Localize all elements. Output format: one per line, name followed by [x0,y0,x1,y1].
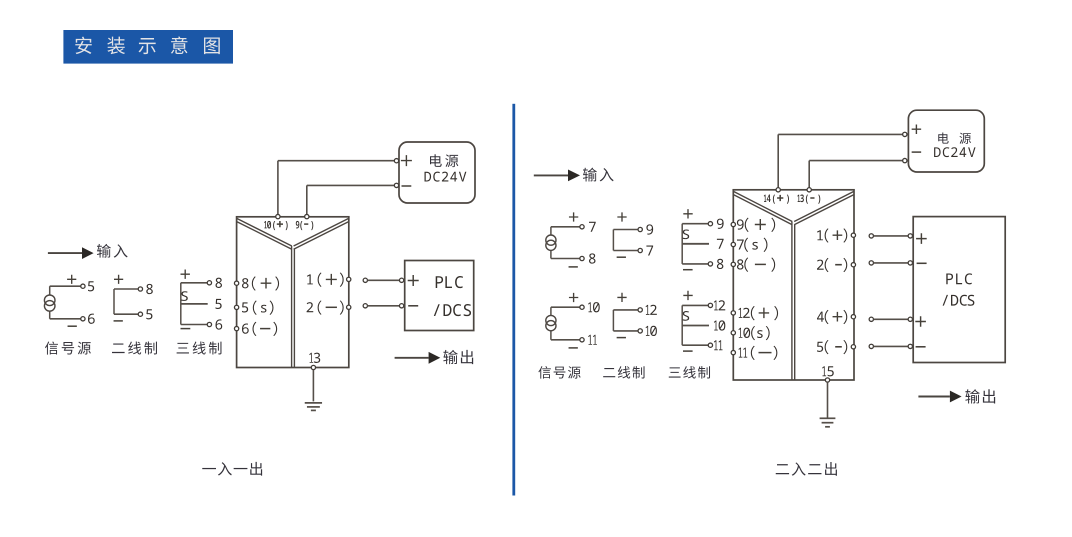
three-wire transmitter symbol (left) [180,283,182,325]
module input terminal 12(+) [731,311,735,315]
PLC polarity + row3 [915,316,926,327]
three-wire symbol ch1 (right) [681,224,683,264]
pin S [683,229,690,239]
terminal 9 [638,227,642,231]
current source ch2 (right) [550,307,552,315]
PLC/DCS box (left) [405,261,474,331]
PLC polarity + row1 [916,233,927,244]
output arrow 输出 (right) [918,396,950,398]
module V-groove left outer [734,192,793,222]
power supply box 电源 DC24V (left) [399,142,475,203]
PLC polarity - [408,305,418,307]
PLC polarity - row4 [916,346,926,348]
label /DCS [434,304,440,316]
terminal 9(-) [305,214,309,218]
wire src2 - [551,339,580,341]
polarity + [181,270,190,279]
wire 2w2 + [613,309,638,311]
power wire - vertical [306,185,308,216]
label /DCS [943,295,948,306]
caption 二入二出 [776,464,789,474]
current source (signal source, left) [49,286,51,295]
wire 3w1 + [682,223,708,225]
module input terminal 5(s) [234,305,238,309]
module V-groove right inner [794,195,853,225]
terminal 11 [708,343,712,347]
module input terminal 7(s) [731,242,735,246]
wire 3w + [181,282,208,284]
module input terminal 11(-) [731,350,735,354]
wire 3w2 + [682,304,708,306]
module output terminal 2(-) [347,305,351,309]
section divider [512,104,515,496]
terminal 13 (ground) [311,365,315,369]
wire 3w1 s [682,243,709,245]
wire 3w s [181,303,208,305]
label 三线制 [177,343,189,354]
polarity + [114,275,123,284]
terminal 7 [638,248,642,252]
terminal 9 [708,222,712,226]
wire source + [50,285,81,287]
module V-groove left outer [237,219,292,247]
label PLC [946,273,953,284]
PLC polarity + [408,275,419,286]
terminal 10 [580,305,584,309]
module input terminal 8(-) [731,262,735,266]
module V-groove left inner [734,195,793,225]
label 二线制 [112,344,125,354]
terminal 10 [638,329,642,333]
terminal 8 [708,262,712,266]
wire src1 + [551,226,580,228]
label 电源 [938,133,948,144]
output wire 2 [363,304,367,308]
module output terminal 5(-) [851,345,855,349]
pin S [683,311,690,321]
title block 安装示意图 [63,30,233,64]
pin label 15 [822,366,826,376]
current source ch1 (right) [550,227,552,235]
output arrow 输出 (left) [395,357,429,359]
label 信号源 (right) [538,366,550,379]
three-wire symbol ch2 (right) [681,305,683,345]
wire 2w + [114,288,138,290]
power terminal + [903,132,907,136]
power terminal - [903,158,907,162]
ground symbol (left) [312,370,314,402]
polarity - [181,328,191,330]
isolator module U2 outline (right) [733,190,854,380]
label 二线制 (right) [603,368,615,377]
wire source - [50,318,81,320]
terminal 12 [638,308,642,312]
terminal 6 [81,317,85,321]
terminal 8 [138,287,142,291]
terminal 12 [708,303,712,307]
wire 2w2 - [613,330,638,332]
terminal 8 [207,281,211,285]
module output terminal 4(+) [851,315,855,319]
terminal 11 [580,338,584,342]
module input terminal 6(-) [234,326,238,330]
power wire - vertical (right) [808,161,810,190]
module output terminal 1(+) [851,233,855,237]
wire src1 - [551,258,580,260]
pin label 14(+) [764,195,767,202]
module input terminal 8(+) [234,281,238,285]
label PLC [436,276,443,288]
wire 2w - [114,313,138,315]
polarity + [67,275,76,284]
output wire row1 [869,234,873,238]
pin S [181,291,188,301]
module input terminal 9(+) [731,222,735,226]
label 信号源 [45,341,58,354]
label 电源 [430,154,442,167]
power terminal + [394,159,398,163]
two-wire symbol ch2 (right) [612,310,614,331]
terminal 10(+) [276,214,280,218]
power wire + vertical [277,161,279,217]
polarity - [114,320,123,322]
module output terminal 1(+) [347,277,351,281]
output wire row4 [869,344,873,348]
terminal 14(+) [776,188,780,192]
wire 2w1 + [613,229,638,231]
terminal 6 [207,322,211,326]
module V-groove right inner [294,222,349,250]
module input terminal 10(s) [731,331,735,335]
module center channel left [791,222,793,381]
wire 3w2 s [682,325,709,327]
module V-groove right outer [294,219,349,247]
label 三线制 (right) [669,367,681,377]
input arrow 输入 (left) [48,252,82,254]
pin label 9(-) [296,221,300,229]
wire src2 + [551,306,580,308]
power supply box 电源 DC24V (right) [908,110,984,172]
pin label 10(+) [264,221,267,228]
output wire row3 [869,317,873,321]
input arrow 输入 (right) [534,174,568,176]
power wire + vertical (right) [777,134,779,189]
module center channel right [293,249,295,367]
two-wire symbol ch1 (right) [612,230,614,251]
terminal 5 [138,312,142,316]
caption 一入一出 [202,468,216,469]
output wire 1 [363,278,367,282]
output wire row2 [869,261,873,265]
label DC24V [425,172,432,182]
module output terminal 2(-) [851,263,855,267]
power wire - horizontal (right) [809,160,905,162]
wire 3w2 - [682,344,708,346]
PLC/DCS box (right) [913,217,1005,363]
pin label 13 [309,353,313,363]
wire 3w - [181,324,208,326]
PLC polarity - row2 [917,262,927,264]
module V-groove right outer [794,192,853,222]
terminal 5 [81,284,85,288]
wire 3w1 - [682,263,708,265]
label DC24V [934,147,941,157]
terminal 15 (ground) [825,378,829,382]
terminal 8 [580,256,584,260]
terminal 13(-) [807,188,811,192]
isolator module U1 outline (left) [237,217,349,368]
power terminal - [394,183,398,187]
pin label 13(-) [797,195,800,202]
polarity - [68,325,77,327]
wire 2w1 - [613,250,638,252]
two-wire transmitter symbol (left) [113,289,115,314]
power wire - horizontal [307,184,397,186]
ground symbol (right) [827,382,829,418]
module center channel right [794,225,796,380]
module center channel left [291,246,293,368]
terminal 7 [580,225,584,229]
module V-groove left inner [237,222,292,250]
power wire + horizontal [278,160,397,162]
power wire + horizontal (right) [778,133,905,135]
